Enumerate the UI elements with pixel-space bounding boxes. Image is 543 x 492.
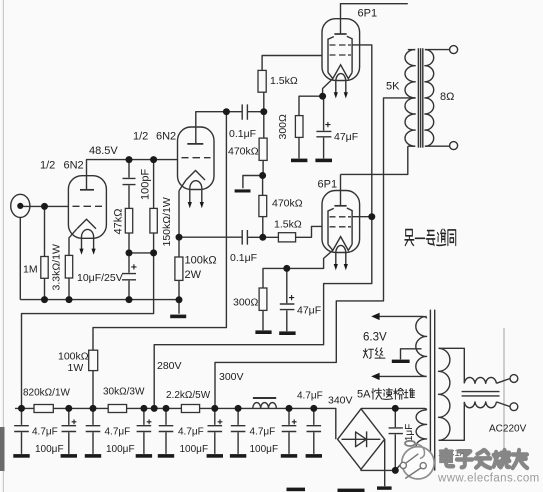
- svg-text:100μF: 100μF: [106, 444, 135, 455]
- svg-text:1.5kΩ: 1.5kΩ: [270, 75, 298, 87]
- svg-text:100μF: 100μF: [35, 444, 64, 455]
- svg-text:4.7μF: 4.7μF: [105, 427, 131, 438]
- svg-text:1M: 1M: [23, 264, 38, 276]
- svg-text:48.5V: 48.5V: [89, 145, 118, 157]
- svg-text:300Ω: 300Ω: [277, 114, 289, 140]
- svg-text:100μF: 100μF: [180, 444, 209, 455]
- svg-text:AC220V: AC220V: [489, 424, 527, 435]
- svg-text:47μF: 47μF: [334, 131, 358, 143]
- svg-text:6N2: 6N2: [64, 160, 84, 172]
- svg-text:5A: 5A: [357, 389, 371, 401]
- svg-text:300Ω: 300Ω: [233, 297, 259, 309]
- svg-text:6.3V: 6.3V: [363, 332, 387, 344]
- svg-text:280V: 280V: [157, 360, 182, 372]
- svg-text:150kΩ/1W: 150kΩ/1W: [161, 197, 173, 246]
- svg-text:2W: 2W: [185, 269, 202, 281]
- svg-text:2.2kΩ/5W: 2.2kΩ/5W: [166, 390, 211, 401]
- svg-text:4.7μF: 4.7μF: [32, 427, 58, 438]
- svg-text:8Ω: 8Ω: [440, 91, 454, 103]
- svg-text:1/2: 1/2: [133, 131, 148, 143]
- svg-text:100kΩ: 100kΩ: [185, 255, 217, 267]
- svg-text:820kΩ/1W: 820kΩ/1W: [23, 388, 71, 399]
- svg-text:100μF: 100μF: [250, 444, 279, 455]
- svg-text:4.7μF: 4.7μF: [178, 427, 204, 438]
- svg-text:0.1μF: 0.1μF: [230, 252, 257, 264]
- svg-text:4.7μF: 4.7μF: [250, 427, 276, 438]
- svg-text:3.3kΩ/1W: 3.3kΩ/1W: [51, 244, 63, 290]
- svg-text:47kΩ: 47kΩ: [113, 209, 125, 235]
- svg-text:340V: 340V: [328, 395, 353, 407]
- svg-text:1/2: 1/2: [40, 160, 55, 172]
- svg-text:10μF/25V: 10μF/25V: [77, 272, 123, 284]
- svg-text:www.elecfans.com: www.elecfans.com: [437, 473, 540, 485]
- svg-text:1W: 1W: [68, 362, 84, 374]
- svg-text:300V: 300V: [219, 371, 244, 383]
- svg-text:470kΩ: 470kΩ: [272, 198, 303, 210]
- svg-text:6N2: 6N2: [156, 131, 176, 143]
- svg-text:100pF: 100pF: [140, 169, 152, 200]
- svg-text:470kΩ: 470kΩ: [228, 146, 259, 158]
- svg-text:6P1: 6P1: [318, 179, 338, 191]
- svg-text:1.5kΩ: 1.5kΩ: [274, 219, 302, 231]
- svg-text:47μF: 47μF: [297, 305, 321, 317]
- svg-text:4.7μF: 4.7μF: [297, 391, 323, 402]
- svg-text:100kΩ: 100kΩ: [58, 351, 89, 363]
- svg-text:6P1: 6P1: [358, 8, 378, 20]
- svg-text:30kΩ/3W: 30kΩ/3W: [103, 387, 145, 398]
- svg-text:5K: 5K: [386, 81, 400, 93]
- svg-text:0.1μF: 0.1μF: [229, 128, 256, 140]
